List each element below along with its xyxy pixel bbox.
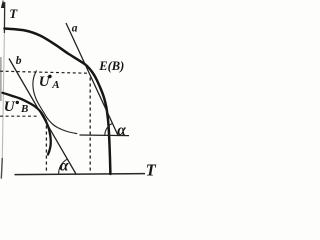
vertical axis T xyxy=(3,2,5,33)
svg-text:U: U xyxy=(4,99,16,115)
dashed vertical below tangency xyxy=(45,120,47,174)
angle alpha arc (right, at line a) xyxy=(105,123,113,135)
svg-text:A: A xyxy=(51,79,59,91)
indifference curve U*B (thick) xyxy=(3,93,51,155)
svg-text:b: b xyxy=(16,55,22,67)
svg-text:B: B xyxy=(20,103,28,115)
svg-text:T: T xyxy=(9,6,18,21)
transformation curve (thick) xyxy=(5,29,111,175)
dashed horizontal to E xyxy=(0,71,87,73)
axis arrowhead xyxy=(1,0,5,8)
indifference curve U*A (thin) xyxy=(33,71,77,134)
svg-text:α: α xyxy=(60,158,70,175)
tangent line b xyxy=(9,59,76,175)
angle alpha arc (bottom left, at line b) xyxy=(59,159,67,174)
dashed horizontal to U*B tangency xyxy=(0,115,38,117)
scan edge bar xyxy=(0,57,2,101)
horizontal axis T' xyxy=(15,174,146,175)
label U*B xyxy=(4,99,29,115)
svg-text:E(B): E(B) xyxy=(98,59,124,73)
tangent line a xyxy=(66,23,118,136)
dashed vertical below E xyxy=(89,78,91,174)
horizontal segment of right angle xyxy=(80,134,130,137)
svg-text:α: α xyxy=(117,122,126,139)
label U*A xyxy=(39,74,60,91)
svg-text:a: a xyxy=(72,23,78,35)
svg-text:T′: T′ xyxy=(146,160,157,179)
